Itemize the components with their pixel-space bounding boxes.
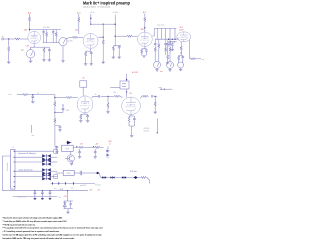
svg-text:to V4a: to V4a — [113, 11, 118, 14]
wire branch right — [55, 109, 63, 112]
wire C1 down — [48, 47, 50, 59]
wire C7 lead — [154, 45, 156, 47]
node tail top — [103, 24, 104, 25]
resistor R16 — [158, 43, 160, 48]
svg-text:wire & ld sw: wire & ld sw — [19, 169, 34, 172]
capacitor C28 — [69, 203, 72, 204]
svg-text:J1: J1 — [12, 147, 14, 149]
wire P3 gnd lead — [156, 68, 158, 69]
capacitor C4 bypass — [90, 53, 93, 54]
wire R2 to V1A grid — [21, 38, 29, 40]
wire rail1 — [2, 190, 88, 192]
svg-text:C20 50u: C20 50u — [144, 131, 150, 133]
ground R9 — [84, 64, 87, 66]
ground C11 — [171, 49, 174, 51]
wire cathode to pot P1 — [31, 47, 35, 49]
resistor R35 — [95, 146, 101, 148]
node V3A grid a — [170, 41, 171, 42]
wire C14 leads — [81, 114, 88, 120]
wire R25 gnd — [107, 108, 109, 111]
node zener tap — [67, 190, 68, 191]
capacitor C20b — [152, 95, 153, 98]
node out — [155, 96, 156, 97]
capacitor C12 — [182, 57, 185, 58]
wire mid tail — [165, 52, 167, 55]
ground R26 — [79, 121, 82, 123]
svg-text:(tone & flow): (tone & flow) — [19, 152, 37, 155]
svg-text:6.3V htrs: 6.3V htrs — [130, 170, 137, 173]
ground C16 — [31, 101, 34, 103]
node rail cap 2 — [42, 190, 43, 191]
capacitor C23 — [94, 152, 97, 153]
wire row2 out — [51, 156, 58, 158]
wire tail rail — [113, 45, 121, 47]
zener diode D4 — [63, 203, 66, 207]
transistor Q1 follower B — [110, 81, 129, 89]
wire V4B plate out — [140, 96, 141, 98]
potentiometer P3 treble — [154, 61, 161, 68]
wire zener rail bottom — [64, 209, 73, 212]
wire chain to relay join — [55, 145, 57, 147]
wire V1B plate out — [98, 24, 103, 37]
wire R1 to V1A plate node — [29, 22, 31, 31]
resistor R24 grid stopper A — [66, 96, 73, 98]
wire R3 to ground — [8, 52, 10, 62]
wire C5 leads — [113, 46, 119, 57]
wire loop to corner — [28, 94, 55, 96]
wire row3 out — [51, 161, 58, 163]
capacitor C26 filter — [41, 192, 44, 193]
wire R24 to grid — [73, 97, 78, 99]
wire cathode join B — [129, 126, 134, 135]
wire B+1 down V4B — [126, 74, 128, 81]
wire led stack — [107, 146, 109, 158]
wire tone verticals — [157, 28, 175, 39]
wire V4A cathode — [84, 113, 86, 114]
heater marker V1 — [102, 176, 106, 179]
wire treble pot drop — [155, 39, 159, 43]
wire row3 — [15, 161, 42, 163]
wire heater end — [147, 178, 150, 184]
triode V3A — [177, 32, 191, 42]
wire box in — [56, 172, 64, 174]
wire V1B cathode — [90, 49, 92, 51]
wire zener leads — [65, 201, 71, 209]
svg-text:475k: 475k — [66, 110, 70, 112]
capacitor C19 bypass B — [133, 119, 136, 120]
wire chain mid — [54, 107, 56, 118]
svg-text:B+1 425: B+1 425 — [132, 72, 138, 74]
wire left loop — [2, 156, 10, 191]
resistor R32 output — [142, 95, 149, 97]
node V3A grid b — [174, 41, 175, 42]
node loop — [32, 94, 33, 95]
wire cathode rail V2A — [142, 49, 147, 56]
wire Q2 emitter — [71, 161, 73, 164]
resistor R2 grid stopper — [15, 38, 21, 40]
capacitor C18 — [59, 126, 62, 127]
node send a — [161, 89, 162, 90]
resistor R19 — [167, 54, 169, 59]
wire R16 lead — [158, 48, 160, 61]
capacitor C6 bypass — [145, 50, 148, 51]
ground R25 — [106, 112, 109, 114]
connector J1 body — [11, 149, 15, 189]
wire coupling verticals top — [44, 30, 57, 32]
resistor R9 cathode — [85, 51, 87, 56]
capacitor C8 bass — [169, 44, 172, 45]
ground C23 — [94, 157, 97, 159]
capacitor C22 — [78, 152, 81, 153]
node rail cap 1 — [34, 190, 35, 191]
wire supply to tail — [91, 23, 103, 25]
ground filter 3 — [49, 197, 52, 200]
svg-text:+ 5 V switching network powere: + 5 V switching network powered from a s… — [3, 230, 60, 233]
wire chain cap branch — [55, 126, 60, 130]
svg-text:0V: 0V — [59, 197, 61, 199]
capacitor C25 filter — [34, 192, 37, 193]
ground P4 — [168, 70, 171, 72]
resistor R22 output — [190, 58, 196, 60]
wire cathode node — [180, 51, 182, 55]
wire cap 2 leads — [41, 191, 43, 199]
ground Q2 — [70, 163, 73, 165]
junction heater b — [134, 176, 138, 179]
wire row1 — [15, 150, 54, 152]
regulator U1 box — [63, 170, 74, 175]
wire V1A plate to coupling — [30, 29, 62, 31]
wire C4 leads — [86, 51, 92, 63]
resistor R8 grid stopper — [72, 36, 78, 38]
resistor R26 cathode A — [80, 114, 82, 120]
node rail cap 3 — [49, 190, 50, 191]
node relay supply — [76, 146, 77, 147]
wire heater seg1 — [81, 172, 96, 174]
ground zener — [66, 212, 69, 214]
ground R13 — [112, 57, 115, 59]
triode V4A — [77, 96, 93, 113]
resistor R25 grid leak B — [107, 103, 109, 109]
node leak B — [107, 96, 108, 97]
wire P2 to ground — [62, 46, 64, 61]
connector block right row1 — [54, 150, 58, 154]
svg-text:send: send — [158, 87, 161, 89]
svg-text:*** R5, R6 may be trimmed with: *** R5, R6 may be trimmed with unit unde… — [3, 223, 36, 226]
wire load drop — [154, 96, 156, 101]
resistor R30 grid leak — [54, 101, 56, 106]
svg-text:+15: +15 — [82, 78, 85, 80]
svg-text:On the rear, the NB bypass jac: On the rear, the NB bypass jack ties all… — [3, 234, 103, 237]
capacitor C24 — [80, 171, 81, 176]
resistor R17b mid — [165, 47, 167, 52]
transistor Q2 driver — [65, 155, 74, 162]
wire box out — [74, 172, 80, 174]
resistor R11 plate — [144, 17, 146, 22]
wire coupling bottom rail — [43, 42, 60, 44]
node V3A cathode — [181, 52, 182, 53]
resistor R36 heater — [141, 176, 147, 178]
wire input node to R3 — [8, 39, 10, 46]
node grid tap — [54, 97, 55, 98]
wire C22 leads — [79, 149, 81, 156]
resistor R33b load — [154, 101, 156, 107]
svg-text:0.1u 2M2: 0.1u 2M2 — [43, 27, 50, 29]
capacitor C21 — [56, 147, 59, 148]
wire R19 gnd — [167, 60, 169, 62]
resistor R29 — [22, 94, 28, 96]
wire R18-R19 — [167, 47, 169, 54]
node follower top — [126, 79, 127, 80]
capacitor C27 filter — [49, 192, 52, 193]
wire V2A plate to tone stack — [152, 28, 154, 36]
wire P5 gnd lead — [180, 68, 182, 69]
svg-text:Mark IIc+ inspired preamp: Mark IIc+ inspired preamp — [83, 0, 130, 5]
node feed b — [115, 36, 116, 37]
wire cathode rail V1B — [86, 50, 92, 52]
potentiometer P2 volume — [59, 38, 67, 46]
svg-text:sw: sw — [55, 148, 57, 150]
resistor R20 cathode — [180, 46, 182, 51]
wire R10 to ground — [102, 45, 104, 62]
ground filter 2 — [41, 197, 44, 200]
resistor R13 — [112, 46, 114, 51]
ground C4 — [90, 64, 93, 66]
capacitor C14 bypass A — [86, 116, 89, 117]
capacitor C15 coupling — [98, 95, 99, 98]
node supply branch a — [90, 18, 91, 19]
heater marker V2 — [110, 176, 114, 179]
svg-text:82k: 82k — [114, 92, 117, 94]
wire R8 to V1B grid — [78, 36, 83, 38]
ground P3 — [155, 70, 158, 72]
wire grid wire A — [55, 97, 66, 99]
wire node V2A feed — [114, 15, 116, 43]
svg-text:12V: 12V — [129, 93, 132, 95]
node V1B plate — [103, 37, 104, 38]
potentiometer P5 master — [178, 62, 184, 68]
wire R12 to V2A grid — [133, 35, 138, 37]
ground C1 — [48, 60, 51, 62]
wire mid drop — [165, 39, 167, 43]
wire feed tail down — [114, 42, 116, 45]
optocoupler LED array row5 — [42, 174, 51, 180]
resistor R12 grid stopper — [127, 35, 133, 37]
resistor R34 — [78, 146, 84, 148]
wire row4 out — [51, 170, 58, 172]
wire leak B drop — [107, 96, 109, 102]
resistor R10 tail — [102, 39, 104, 45]
wire V3A cathode — [180, 42, 182, 46]
follower A body — [80, 81, 87, 87]
wire chain to relay feed — [54, 123, 56, 146]
wire rail2 — [13, 196, 58, 198]
wire master pair — [179, 55, 183, 63]
connector block right row5 — [54, 175, 58, 179]
wire feed to R12 — [115, 35, 126, 37]
svg-text:B+3 i: B+3 i — [91, 12, 96, 14]
triode V2A — [138, 32, 153, 46]
wire cathode rail B — [129, 115, 134, 117]
wire row2 — [15, 156, 42, 158]
capacitor C7 treble — [154, 44, 157, 45]
wire out node — [154, 95, 157, 97]
node send b — [164, 89, 165, 90]
resistor R7 plate 100k — [78, 17, 80, 23]
wire R11 to V2A plate — [144, 22, 146, 32]
wire row5 — [15, 176, 42, 178]
ground C21 — [55, 152, 58, 154]
connector J1 pin ticks — [14, 151, 15, 186]
wire row5 out — [51, 176, 58, 178]
input jack J-in — [2, 38, 4, 40]
resistor R18 — [167, 42, 169, 47]
wire tone mid rail — [155, 38, 178, 40]
ground R19 — [166, 62, 169, 64]
resistor R4 cathode — [43, 48, 45, 53]
svg-text:285: 285 — [141, 29, 144, 31]
svg-text:.1u: .1u — [94, 94, 96, 96]
wire cathode bypass branch — [34, 46, 49, 48]
resistor R14 cathode — [141, 49, 143, 54]
svg-text:1 2 AX7 3: 1 2 AX7 3 — [127, 103, 135, 106]
wire tail down — [102, 37, 104, 39]
junction heater a — [96, 172, 99, 175]
wire V2A cathode — [144, 46, 146, 48]
wire send branch — [160, 88, 172, 90]
ground P2 — [61, 61, 64, 63]
triode V1B — [83, 33, 98, 48]
wire R27 to grid — [121, 96, 123, 98]
wire C9 lead — [165, 45, 167, 47]
wire zener rail top — [64, 200, 73, 202]
svg-text:* Based on the classic export: * Based on the classic export schematic;… — [3, 216, 63, 219]
resistor R6 — [55, 32, 57, 37]
LED D2 — [106, 149, 109, 152]
resistor R28 cathode B — [128, 116, 130, 123]
node tone b — [172, 39, 173, 40]
wire P4 leads — [169, 52, 171, 69]
wire input to grid node — [4, 38, 15, 40]
wire footsw feed — [31, 125, 33, 133]
wire follower B to plate — [126, 89, 128, 97]
wire V3A plate out — [189, 40, 191, 59]
wire heater line — [101, 177, 141, 179]
heater marker V3 — [122, 176, 126, 179]
wire stub tail — [156, 119, 158, 133]
svg-text:252: 252 — [75, 29, 78, 31]
wire R7 to V1B plate — [78, 23, 80, 34]
resistor R3 1M — [8, 46, 10, 52]
ground C18 — [58, 130, 61, 132]
svg-text:gain: gain — [21, 50, 24, 52]
tick h1 — [53, 182, 74, 184]
triode V4B — [122, 97, 141, 114]
svg-text:R33 3k3: R33 3k3 — [144, 128, 150, 130]
wire P3 top — [154, 52, 156, 61]
node led supply — [93, 146, 94, 147]
node tone c — [174, 39, 175, 40]
resistor R5 parallel — [45, 32, 47, 37]
capacitor C9 mid — [164, 44, 167, 45]
svg-text:1 2 AX7 3: 1 2 AX7 3 — [81, 102, 89, 105]
wire C21 leads — [56, 146, 58, 151]
ground C22 — [78, 157, 81, 159]
wire loop in — [17, 94, 22, 96]
capacitor C2 coupling — [42, 32, 45, 33]
capacitor C1 bypass — [48, 50, 51, 51]
wire row4 — [15, 170, 42, 172]
ground R4 — [42, 60, 45, 62]
wire P2 wiper to grid — [65, 37, 72, 38]
ground input — [7, 62, 10, 64]
wire to V4B grid — [101, 95, 114, 97]
wire cap 1 leads — [34, 191, 36, 199]
ground P5 — [179, 69, 182, 71]
wire out — [196, 58, 201, 60]
capacitor C5 — [118, 47, 121, 48]
wire bass pot drop — [169, 39, 171, 43]
resistor R1 plate 82k — [28, 17, 30, 22]
wire C23 leads — [94, 149, 96, 156]
node input — [8, 38, 9, 39]
ground R10 — [102, 62, 105, 64]
wire coupling verticals bottom — [44, 33, 57, 43]
node tone a — [168, 39, 169, 40]
wire B+2 down — [144, 14, 146, 17]
wire P1 to ground — [30, 58, 32, 61]
wire C17 stub — [62, 104, 64, 108]
ground filter 1 — [34, 197, 37, 200]
wire R4 down — [43, 53, 45, 60]
resistor R21 — [178, 56, 180, 61]
wire V4B cathode — [130, 115, 132, 117]
arrowhead stub tail — [157, 132, 159, 134]
node V1A plate — [29, 29, 30, 30]
svg-text:** Lead drive pot 250kW, with: ** Lead drive pot 250kW, with a 47k stop… — [3, 220, 67, 223]
wire zener drop — [67, 191, 69, 201]
ground load — [154, 112, 157, 114]
resistor R27 grid stopper B — [114, 95, 121, 97]
wire left column top — [167, 40, 169, 41]
wire tone rail — [154, 27, 176, 29]
wire interstage to V2A — [103, 23, 115, 25]
wire B+3b down — [78, 14, 80, 17]
svg-text:+12: +12 — [97, 189, 100, 191]
wire heater line2 — [51, 182, 95, 184]
node follower out — [126, 91, 127, 92]
svg-text:**** Long leads wired with 0.7: **** Long leads wired with 0.75 mm; keep… — [3, 227, 104, 230]
wire follower A to plate — [82, 87, 84, 96]
wire V1A cathode — [33, 44, 35, 47]
wire chain down — [54, 95, 56, 102]
wire supply branch — [90, 14, 92, 24]
LED D3 — [106, 154, 109, 157]
ground V2A cathode — [142, 56, 145, 58]
wire relay to Q2 — [70, 151, 72, 154]
ground C5 — [118, 57, 121, 59]
wire cap 3 leads — [49, 191, 51, 199]
svg-text:REG: REG — [67, 173, 71, 175]
wire B+3 to R1 — [29, 14, 31, 17]
potentiometer P4 bass — [167, 61, 174, 68]
optocoupler LED array row2 — [42, 154, 51, 160]
wire cathode rail A — [81, 113, 88, 115]
wire V4A plate out — [92, 96, 98, 98]
node supply branch b — [90, 24, 91, 25]
optocoupler LED array row3 — [42, 159, 51, 165]
capacitor C17 — [62, 108, 65, 109]
node chain — [54, 112, 55, 113]
